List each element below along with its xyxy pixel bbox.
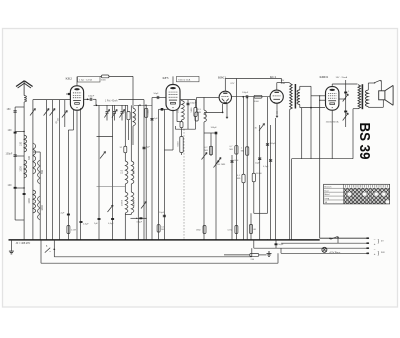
svg-text:+: + bbox=[374, 242, 376, 246]
svg-text:300: 300 bbox=[28, 155, 31, 160]
svg-text:1000: 1000 bbox=[28, 198, 31, 204]
svg-text:100pF: 100pF bbox=[211, 127, 218, 129]
svg-text:550: 550 bbox=[41, 169, 44, 174]
svg-text:50µF: 50µF bbox=[278, 244, 284, 246]
svg-text:+: + bbox=[374, 252, 376, 256]
svg-text:100: 100 bbox=[177, 108, 180, 113]
svg-text:4000: 4000 bbox=[254, 101, 260, 103]
svg-text:RG 2MΩ: RG 2MΩ bbox=[217, 164, 226, 166]
svg-text:0,5µF: 0,5µF bbox=[108, 223, 114, 225]
svg-text:1000: 1000 bbox=[19, 166, 22, 172]
svg-text:87V: 87V bbox=[231, 83, 235, 85]
svg-text:MΩ: MΩ bbox=[205, 150, 209, 152]
svg-text:MΩ: MΩ bbox=[241, 150, 245, 152]
svg-text:MΩ: MΩ bbox=[230, 149, 234, 151]
svg-text:10µF: 10µF bbox=[255, 163, 261, 165]
svg-text:567: 567 bbox=[132, 169, 135, 174]
svg-text:29678: 29678 bbox=[133, 199, 135, 206]
svg-text:2µF: 2µF bbox=[94, 223, 98, 225]
svg-text:KK2: KK2 bbox=[66, 77, 73, 81]
svg-text:Kurz: Kurz bbox=[324, 189, 328, 192]
svg-text:2µF: 2µF bbox=[61, 213, 65, 215]
svg-text:4,5V Birne: 4,5V Birne bbox=[330, 251, 341, 254]
svg-text:5µF: 5µF bbox=[146, 146, 150, 148]
svg-text:7000 Ω 5mA: 7000 Ω 5mA bbox=[178, 79, 191, 82]
svg-text:5000: 5000 bbox=[178, 141, 180, 147]
svg-text:1MΩ: 1MΩ bbox=[196, 230, 201, 232]
svg-text:Bereich: Bereich bbox=[324, 185, 332, 188]
svg-text:100pF: 100pF bbox=[242, 92, 249, 94]
svg-text:0,5µF: 0,5µF bbox=[83, 224, 89, 226]
svg-text:100: 100 bbox=[8, 184, 13, 187]
svg-text:KDD1: KDD1 bbox=[320, 75, 329, 79]
svg-text:18V: 18V bbox=[281, 80, 285, 82]
svg-text:5000: 5000 bbox=[101, 80, 107, 82]
svg-text:50000: 50000 bbox=[256, 173, 263, 175]
svg-text:50pF: 50pF bbox=[154, 93, 160, 95]
svg-text:KF3: KF3 bbox=[163, 76, 169, 80]
svg-text:100: 100 bbox=[19, 141, 22, 146]
svg-text:10µF: 10µF bbox=[159, 212, 165, 214]
svg-text:110: 110 bbox=[121, 169, 124, 173]
svg-text:18V · 15mA: 18V · 15mA bbox=[336, 76, 348, 79]
svg-text:50µF: 50µF bbox=[234, 160, 240, 162]
svg-text:1800: 1800 bbox=[41, 205, 44, 211]
svg-text:4Ω: 4Ω bbox=[253, 229, 256, 231]
svg-text:90V: 90V bbox=[381, 252, 385, 254]
svg-text:100pF: 100pF bbox=[6, 153, 13, 156]
svg-text:1 Spr · 12mA: 1 Spr · 12mA bbox=[79, 79, 92, 82]
svg-text:1 Pol. 42mA: 1 Pol. 42mA bbox=[105, 99, 118, 102]
svg-text:Mittel: Mittel bbox=[324, 193, 330, 196]
svg-text:0,1µF: 0,1µF bbox=[263, 166, 269, 168]
svg-text:BS 39: BS 39 bbox=[356, 123, 372, 160]
svg-text:0,5µF: 0,5µF bbox=[137, 222, 143, 224]
svg-text:180: 180 bbox=[7, 108, 12, 111]
svg-text:MΩ: MΩ bbox=[237, 178, 241, 180]
svg-text:JF = 468 kHz: JF = 468 kHz bbox=[16, 242, 32, 245]
svg-text:13000: 13000 bbox=[122, 199, 124, 206]
svg-text:140pF: 140pF bbox=[88, 95, 95, 97]
svg-text:KC1: KC1 bbox=[270, 75, 277, 79]
svg-text:1500: 1500 bbox=[135, 114, 137, 120]
svg-text:0,1M: 0,1M bbox=[71, 230, 76, 232]
svg-text:100: 100 bbox=[8, 129, 13, 132]
